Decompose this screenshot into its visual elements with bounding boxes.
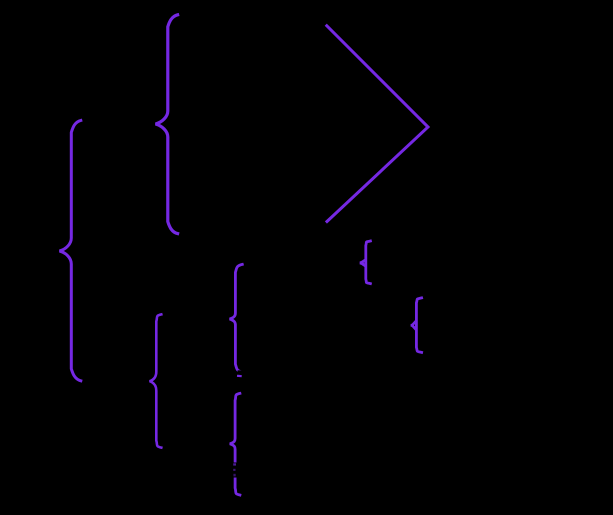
faint dash 1 on B7 stem: [233, 463, 236, 465]
brace B5 (small far right): [416, 298, 421, 353]
B3 hook tip dash: [238, 375, 241, 377]
brace B1 (tall top-middle): [156, 15, 178, 234]
brace B4 (small right): [366, 241, 371, 284]
brace B3 (mid center): [230, 264, 243, 372]
faint dash 2 on B7 stem: [233, 469, 235, 471]
brace B7 (lower center): [230, 393, 240, 495]
occlusion over B3 hook: [238, 370, 246, 375]
chevron (big angle bracket): [327, 26, 428, 222]
brace B6 (lower left): [150, 314, 162, 447]
faint dash 3 on B7 stem: [233, 474, 235, 477]
cusp of B5: [411, 322, 415, 329]
occlusion over B7 stem: [232, 463, 237, 478]
brace B2 (tall left): [60, 120, 81, 380]
cusp of B4: [360, 261, 364, 265]
